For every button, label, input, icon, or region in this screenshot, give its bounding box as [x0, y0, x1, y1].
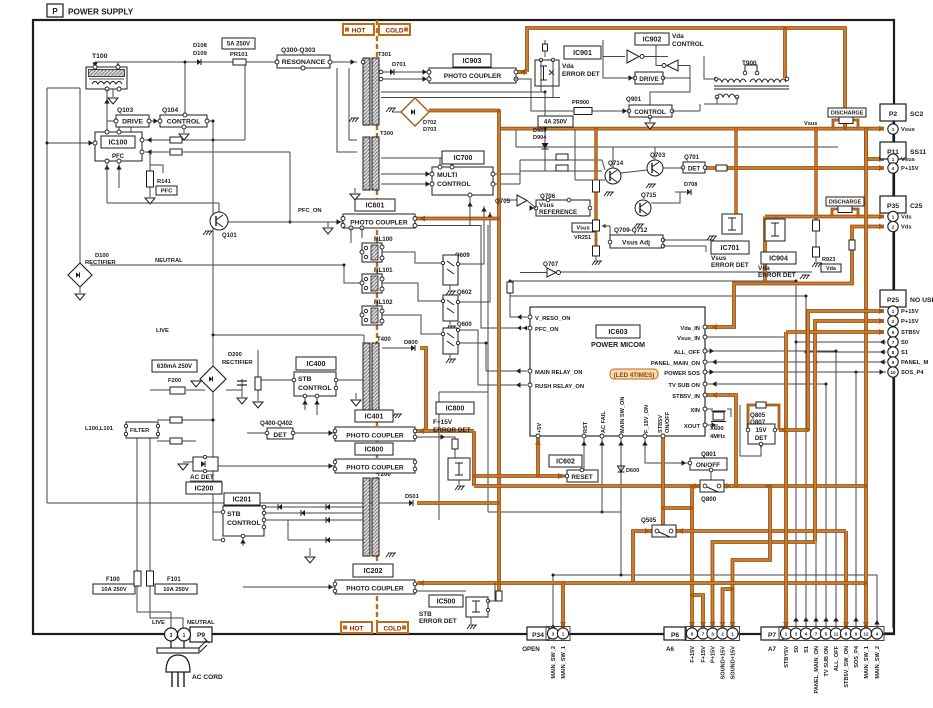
wire AC DET left gnd stub	[183, 461, 193, 463]
wire CONTROL right to x213	[207, 120, 213, 122]
svg-text:FILTER: FILTER	[130, 428, 149, 434]
svg-text:IC904: IC904	[769, 256, 788, 263]
svg-text:F+15V: F+15V	[433, 419, 453, 426]
svg-text:DRIVE: DRIVE	[122, 118, 143, 125]
svg-text:LIVE: LIVE	[152, 620, 165, 626]
fuse F100	[93, 571, 141, 594]
wire neutral line y265	[90, 264, 344, 266]
wire x545 drop	[544, 92, 546, 129]
svg-text:RESONANCE: RESONANCE	[282, 59, 326, 66]
wire x245 down	[244, 62, 246, 140]
wire p34 pin3 feed	[552, 575, 554, 628]
orange stub to IC903 coupler	[516, 70, 527, 74]
wire AC DET to IC600 coupler	[218, 465, 335, 467]
svg-text:MAIN_SW_1: MAIN_SW_1	[864, 646, 870, 679]
photo coupler IC202	[333, 580, 417, 594]
ground IC701	[707, 236, 717, 240]
wire IC700 right pins to x520	[493, 173, 520, 175]
wire live line y335	[213, 334, 364, 336]
svg-text:STB5V: STB5V	[658, 415, 664, 433]
transistor Q715	[634, 192, 657, 228]
svg-text:PHOTO COUPLER: PHOTO COUPLER	[350, 220, 408, 227]
wire CONTROL bottom stub	[183, 127, 185, 133]
diode D501	[409, 500, 413, 506]
orange drop to T900	[783, 28, 787, 78]
label Q805 Q807	[750, 412, 766, 426]
block Q103 DRIVE	[114, 107, 151, 127]
discharge label P35	[826, 197, 864, 206]
svg-text:T301: T301	[378, 52, 392, 58]
svg-text:TV SUB ON: TV SUB ON	[668, 383, 700, 389]
svg-text:7: 7	[815, 632, 818, 637]
svg-text:+5V: +5V	[537, 423, 543, 433]
rectifier D200	[200, 352, 253, 392]
wire DET to IC401 coupler	[293, 432, 335, 434]
connector P25 pin 8 S1	[888, 347, 909, 357]
connector P34 pin 1 MAIN_SW_1	[557, 628, 568, 679]
wire all_off	[707, 350, 836, 352]
svg-text:IC902: IC902	[643, 37, 662, 44]
svg-text:CONTROL: CONTROL	[437, 181, 471, 188]
orange discharge loop P2	[833, 120, 839, 129]
fuse PR101 with rating	[222, 38, 255, 65]
svg-text:3: 3	[552, 632, 555, 637]
svg-text:D701: D701	[392, 62, 407, 68]
svg-text:D109: D109	[193, 51, 208, 57]
svg-text:RL102: RL102	[374, 299, 393, 306]
wire s1 net	[805, 296, 807, 352]
svg-text:IC600: IC600	[365, 447, 384, 454]
orange x846 to P7 stb5v_sw_on	[844, 531, 848, 628]
ground ic800	[458, 480, 460, 485]
connector P25	[880, 290, 933, 307]
svg-text:IC903: IC903	[463, 58, 482, 65]
wires t900	[704, 56, 716, 79]
svg-text:SS11: SS11	[910, 149, 926, 156]
svg-text:MULTI: MULTI	[437, 172, 457, 179]
wire x488 sense vertical	[487, 225, 489, 512]
connector P6 pin 3 P+15V	[707, 628, 718, 663]
ic IC201 label	[224, 493, 260, 505]
svg-text:9: 9	[855, 632, 858, 637]
wire y88 from left bus to T100	[47, 87, 80, 89]
rating 4A 250V	[538, 116, 573, 127]
svg-text:P2: P2	[889, 111, 898, 118]
orange x816 vda det net	[814, 129, 817, 220]
orange x692 to P6 pin9	[690, 486, 694, 628]
wire x290 feedback	[289, 152, 291, 222]
hot/cold isolation dashed line (middle)	[376, 125, 378, 137]
wire s0 down to P7	[795, 342, 797, 628]
wire fuse F100 to P9 live	[137, 586, 171, 628]
block DET Q701	[681, 162, 707, 173]
svg-text:630mA 250V: 630mA 250V	[157, 364, 192, 370]
label Vda ERROR DET 901	[562, 63, 600, 78]
resistor R923 stack	[812, 220, 822, 267]
relay RL100	[360, 236, 393, 262]
svg-text:P+15V: P+15V	[901, 309, 919, 315]
svg-text:STB: STB	[298, 376, 312, 383]
wire q707 row y272	[560, 271, 812, 273]
svg-text:PFC_ON: PFC_ON	[298, 208, 322, 214]
wire x258 resistor branch	[257, 350, 259, 377]
wire rush relay line	[458, 330, 478, 385]
svg-text:Vsus: Vsus	[804, 121, 817, 127]
op-amp IC902	[627, 50, 644, 63]
svg-text:PR101: PR101	[230, 52, 249, 58]
svg-text:A7: A7	[768, 646, 776, 653]
svg-text:Q104: Q104	[162, 107, 178, 114]
svg-text:P+15V: P+15V	[901, 319, 919, 325]
ic IC903 label	[453, 54, 491, 67]
wire T200 right top to D501	[381, 502, 405, 504]
inverter Q705	[495, 195, 527, 206]
svg-text:PFC: PFC	[161, 189, 173, 195]
svg-text:PHOTO COUPLER: PHOTO COUPLER	[346, 433, 404, 440]
inductor filter L100 L101	[85, 422, 160, 438]
wire T100 bottom to drive	[106, 89, 108, 121]
wire pfc_on net from coupler	[415, 226, 527, 329]
wire feedback rows y160 y171	[520, 159, 602, 161]
svg-text:V_RESO_ON: V_RESO_ON	[535, 316, 570, 322]
svg-text:RECTIFIER: RECTIFIER	[85, 260, 116, 266]
wire T400 to D800	[382, 347, 411, 349]
svg-text:IC602: IC602	[556, 459, 575, 466]
connector P11	[880, 142, 926, 159]
block 15V DET	[746, 424, 777, 446]
wire panel down to P7	[815, 362, 817, 628]
svg-text:NEUTRAL: NEUTRAL	[155, 258, 183, 264]
svg-text:D702: D702	[423, 120, 436, 126]
svg-text:1: 1	[731, 632, 734, 637]
pot VR251	[593, 220, 613, 242]
connector P34 pin 3 MAIN_SW_2	[547, 628, 558, 679]
connector P7 pin 4 MAIN_SW_2	[871, 628, 882, 679]
resistor filter bottom	[170, 438, 182, 444]
orange stb5v rail x786	[784, 332, 788, 628]
fuse F200	[168, 378, 185, 394]
wire y92 run	[381, 91, 545, 93]
connector P25 pin 10 SOS_P4	[888, 367, 925, 377]
svg-text:3: 3	[711, 632, 714, 637]
resistor on v_reso net	[507, 282, 513, 293]
wire live to T400	[363, 335, 365, 343]
svg-text:Q705: Q705	[495, 198, 511, 205]
svg-text:4: 4	[876, 632, 879, 637]
transistor Q703	[646, 152, 666, 188]
svg-text:AC FAIL: AC FAIL	[601, 411, 607, 433]
svg-text:Vda: Vda	[826, 266, 837, 272]
svg-text:Q300-Q303: Q300-Q303	[281, 47, 316, 54]
wire x439 down	[438, 392, 440, 520]
ic IC100 PFC	[93, 130, 144, 163]
label Vsus VR251	[572, 223, 594, 241]
label AC DET	[190, 474, 222, 481]
svg-text:P+15V: P+15V	[901, 166, 919, 172]
wire DRIVE to CONTROL	[149, 120, 160, 122]
connector P7	[761, 627, 783, 653]
wire main relay_on to micom	[486, 370, 527, 372]
svg-text:S0: S0	[794, 646, 800, 653]
wire ac fail	[601, 437, 603, 512]
svg-text:Vda: Vda	[758, 265, 770, 272]
svg-text:Q101: Q101	[222, 233, 237, 239]
micom right pins	[651, 325, 707, 430]
orange resistor on x499	[496, 591, 502, 601]
resistor filter top	[170, 417, 182, 423]
transformer T300	[363, 131, 393, 190]
svg-text:T300: T300	[380, 131, 393, 137]
orange x736 vsus error det net	[734, 129, 737, 215]
wire y147 run	[516, 129, 838, 147]
svg-text:4: 4	[805, 632, 808, 637]
label Vsus ERROR DET 701	[711, 255, 749, 269]
wire filter down to fuses	[136, 437, 138, 573]
ac plug	[157, 641, 199, 687]
resistor R141	[147, 171, 178, 195]
svg-text:IC701: IC701	[721, 245, 740, 252]
HOT label top	[343, 24, 374, 35]
wire top rail y62	[95, 61, 277, 63]
svg-text:RECTIFIER: RECTIFIER	[222, 360, 253, 366]
wire Q602 right up arrow	[458, 212, 490, 302]
svg-text:(LED 4TIMES): (LED 4TIMES)	[614, 372, 655, 379]
diode row 2	[301, 510, 305, 516]
orange p+15v net P6 pin3	[713, 542, 816, 628]
wires ic902 region	[603, 56, 625, 58]
svg-text:ERROR DET: ERROR DET	[419, 618, 457, 625]
svg-text:3: 3	[170, 633, 173, 639]
wire IC400 row	[336, 379, 364, 381]
svg-text:AC DET: AC DET	[190, 474, 214, 481]
orange discharge loop P35	[832, 209, 838, 217]
svg-text:PANEL_MAIN_ON: PANEL_MAIN_ON	[651, 361, 700, 367]
svg-text:RST: RST	[583, 421, 589, 433]
orange stb5v_in drop	[707, 395, 736, 486]
svg-text:1: 1	[183, 633, 186, 639]
wire box outline ic602 area	[439, 391, 488, 393]
orange P6 pin2 sound net	[723, 589, 733, 628]
ic IC901 comp	[535, 58, 559, 86]
orange vds pin1 net	[765, 215, 884, 219]
wire filter resistor taps	[157, 419, 213, 421]
fuse rating 630mA	[152, 360, 197, 372]
svg-text:POWER SOS: POWER SOS	[664, 371, 700, 377]
orange main f+15v rail y486	[474, 484, 868, 488]
svg-text:RESET: RESET	[571, 474, 592, 481]
svg-text:IC400: IC400	[307, 361, 326, 368]
connector P7 pin 3 S0	[790, 628, 801, 653]
resistor div	[255, 377, 261, 390]
svg-text:P7: P7	[768, 632, 776, 639]
wire STB control bottom stubs	[304, 397, 306, 410]
connector P7 pin 9 SOS_P4	[850, 628, 861, 668]
HOT label bottom	[341, 622, 372, 633]
svg-text:X600: X600	[710, 426, 724, 432]
svg-text:CONTROL: CONTROL	[167, 118, 201, 125]
svg-text:Vda: Vda	[562, 63, 574, 70]
wire Q101 collector stub	[218, 203, 220, 212]
wire ic500 loop	[488, 583, 495, 601]
ground T200	[386, 553, 396, 557]
fuse F101	[147, 571, 198, 594]
svg-text:2: 2	[892, 225, 895, 230]
ground Q609	[449, 285, 451, 290]
COLD label bottom	[377, 622, 408, 633]
zener block IC904	[765, 219, 785, 241]
connector P9	[165, 627, 213, 642]
wire s0 net	[795, 281, 797, 342]
svg-text:D100: D100	[95, 253, 109, 259]
svg-text:Vds: Vds	[901, 215, 912, 221]
orange main_sw1 x866	[864, 129, 868, 628]
wire f15v_on to on/off	[645, 437, 688, 463]
connector P25 pin 7 S0	[888, 337, 908, 347]
svg-text:Q703: Q703	[650, 152, 666, 159]
orange q800 arrows	[694, 483, 699, 489]
wire d600 branch	[620, 463, 622, 512]
label Vda CONTROL 902	[672, 33, 704, 48]
svg-text:1: 1	[892, 215, 895, 220]
svg-text:ALL_OFF: ALL_OFF	[674, 350, 701, 356]
svg-text:Vsus: Vsus	[901, 127, 915, 133]
wire stb control bottom stub	[242, 536, 244, 546]
svg-text:S0: S0	[901, 340, 908, 346]
ic IC601 label	[355, 199, 395, 211]
orange reset arrow line	[563, 475, 567, 478]
wire Q609 right up arrow	[458, 206, 484, 264]
bridge rectifier D702 D703	[401, 98, 436, 133]
connector P7 pin 7 PANEL_MAIN_ON	[810, 628, 821, 694]
wire s1 down to P7	[805, 352, 807, 628]
svg-text:F_15V_ON: F_15V_ON	[644, 405, 650, 433]
svg-text:PFC_ON: PFC_ON	[535, 327, 559, 333]
connector P35 pin 2 Vds	[888, 221, 912, 231]
svg-text:Vda: Vda	[672, 33, 684, 40]
wire y97 run	[381, 97, 560, 99]
zener D600	[618, 466, 640, 474]
orange photo coupler IC601 net pin1	[415, 217, 499, 221]
orange p+15v line to P11 pin4	[706, 166, 884, 170]
svg-text:POWER SUPPLY: POWER SUPPLY	[68, 8, 134, 17]
diode D708	[687, 189, 691, 195]
ic IC401 label	[355, 410, 393, 422]
svg-text:ERROR DET: ERROR DET	[433, 427, 471, 434]
wire multi control bottom	[469, 197, 471, 225]
wire RL101 to Q602	[382, 283, 443, 301]
orange x499 long vertical	[497, 111, 501, 592]
svg-text:COLD: COLD	[383, 626, 401, 633]
wire live down to filter/viaF200	[212, 335, 214, 390]
svg-text:RUSH RELAY_ON: RUSH RELAY_ON	[535, 384, 584, 390]
ic IC901 label	[564, 46, 601, 59]
wire panel_main_on	[707, 361, 886, 363]
svg-text:XOUT: XOUT	[684, 424, 701, 430]
wire control top feed	[184, 62, 186, 114]
orange main rail y129 to P2	[499, 127, 884, 131]
ground T400	[392, 414, 402, 418]
svg-text:PR900: PR900	[572, 100, 589, 106]
ic IC902 label	[635, 33, 669, 45]
svg-text:PHOTO COUPLER: PHOTO COUPLER	[346, 465, 404, 472]
svg-text:STB5V_SW_ON: STB5V_SW_ON	[844, 646, 850, 688]
diode D108 D109	[193, 43, 208, 65]
orange arrow into IC401 coupler	[415, 429, 426, 433]
svg-text:P+15V: P+15V	[711, 646, 717, 663]
wire stb control left loop	[213, 512, 223, 540]
ground bridge	[392, 111, 401, 113]
svg-text:DISCHARGE: DISCHARGE	[831, 110, 864, 116]
wire on/off to q800	[710, 470, 712, 480]
connector P7 pin 11 ALL_OFF	[830, 628, 841, 671]
block STB CONTROL IC400	[292, 372, 338, 398]
svg-text:Vsus: Vsus	[539, 202, 554, 209]
svg-text:CONTROL: CONTROL	[672, 41, 704, 48]
ground ic500	[470, 617, 472, 624]
connector P7 pin 5 TV SUB ON	[820, 628, 831, 677]
photo coupler IC600	[333, 459, 417, 473]
label D903 D904	[533, 128, 547, 141]
block AC DET diode	[193, 455, 218, 472]
wire IC700 top stub	[439, 158, 441, 168]
wire IC800 sense resistor	[415, 437, 455, 439]
svg-text:ERROR DET: ERROR DET	[562, 71, 600, 78]
wire main_sw_2 from frame	[884, 378, 894, 633]
svg-text:P25: P25	[887, 297, 899, 304]
micom bottom pins	[536, 397, 671, 438]
svg-text:VR251: VR251	[574, 235, 591, 241]
diode D800	[411, 345, 415, 351]
svg-text:ON/OFF: ON/OFF	[696, 462, 720, 469]
photo coupler IC401	[333, 427, 417, 441]
svg-text:15V: 15V	[755, 427, 767, 434]
fuse PR900	[572, 100, 592, 115]
ground live branch	[191, 381, 201, 387]
svg-text:L100,L101: L100,L101	[85, 426, 114, 432]
wire RL102 to Q600	[382, 315, 443, 334]
transformer T900	[714, 60, 789, 99]
wire T100 top-left stub	[94, 62, 96, 68]
wire row y296	[510, 295, 806, 297]
svg-text:F+15V: F+15V	[690, 646, 696, 663]
orange P6 pin1 sound net	[733, 486, 771, 628]
svg-text:Q701: Q701	[684, 154, 700, 161]
ic IC800 zener block	[448, 439, 470, 480]
svg-text:T100: T100	[92, 53, 108, 60]
svg-text:ERROR DET: ERROR DET	[711, 262, 749, 269]
wires vsus adj right	[663, 239, 714, 241]
block Q104 CONTROL	[158, 107, 209, 129]
svg-text:8: 8	[892, 350, 895, 355]
svg-text:R141: R141	[157, 179, 172, 185]
wire rst pullup	[583, 437, 585, 470]
svg-text:STB: STB	[419, 611, 432, 618]
svg-text:D600: D600	[626, 468, 639, 474]
orange 15v det right line	[779, 428, 808, 432]
ic IC500 label	[429, 595, 463, 607]
wire x349 T300 feed	[349, 68, 357, 140]
wire PFC_ON stub down-triangle	[327, 222, 329, 227]
block ON/OFF Q801	[688, 458, 727, 472]
svg-text:3: 3	[795, 632, 798, 637]
connector P34	[522, 627, 549, 653]
wire R141 staple	[150, 165, 163, 173]
wire xout to crystal	[707, 424, 718, 426]
svg-text:DET: DET	[688, 166, 701, 173]
wire return line y503 from left bus	[47, 502, 409, 504]
block RESET	[565, 468, 598, 482]
svg-text:IC202: IC202	[364, 568, 383, 575]
